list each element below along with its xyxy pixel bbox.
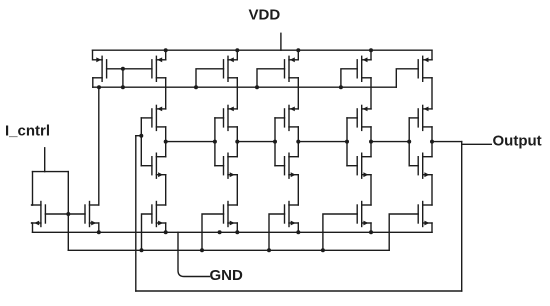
svg-text:VDD: VDD [249, 7, 281, 24]
svg-text:I_cntrl: I_cntrl [5, 122, 50, 139]
svg-text:Output: Output [493, 133, 542, 150]
svg-text:GND: GND [210, 267, 244, 284]
